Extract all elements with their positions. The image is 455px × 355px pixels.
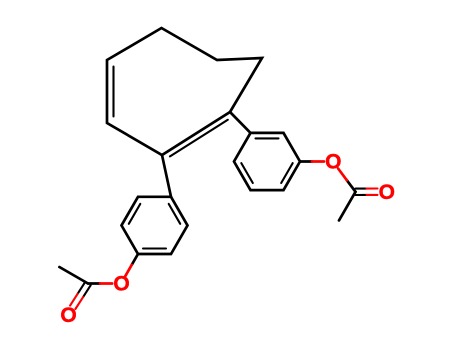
svg-text:O: O [325, 151, 341, 174]
svg-text:O: O [60, 304, 76, 327]
svg-text:O: O [113, 273, 129, 296]
svg-text:O: O [379, 181, 395, 204]
